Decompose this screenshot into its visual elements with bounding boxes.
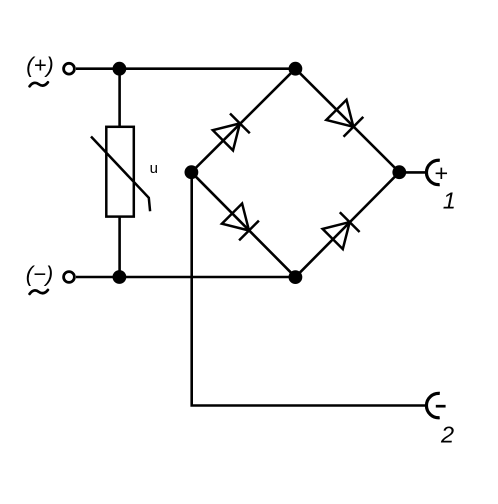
svg-text:+: + bbox=[434, 160, 448, 186]
svg-text:u: u bbox=[150, 160, 158, 177]
svg-text:1: 1 bbox=[443, 188, 456, 214]
svg-text:2: 2 bbox=[440, 422, 454, 448]
svg-text:(+): (+) bbox=[26, 52, 54, 77]
svg-text:(−): (−) bbox=[26, 262, 54, 287]
